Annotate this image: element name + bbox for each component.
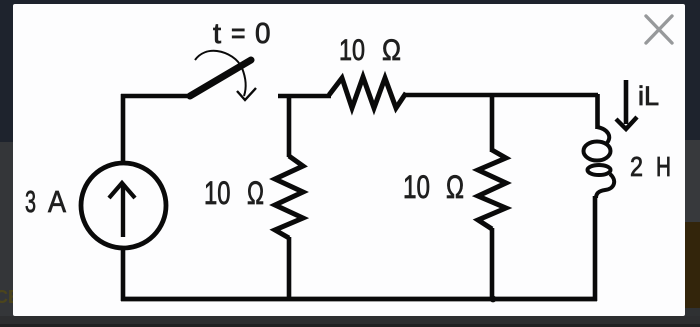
switch S1 closing motion arrowhead [237, 88, 256, 100]
node A junction: top of R2 [287, 94, 292, 157]
junction dot R3 bottom [490, 296, 497, 303]
svg-text:10: 10 [403, 169, 430, 205]
resistor R1 10 ohm horizontal zigzag [329, 77, 406, 108]
label 2 H for L1 [630, 151, 671, 182]
page background right brown ad band [684, 222, 700, 308]
page background left gray strip [0, 142, 14, 316]
svg-text:=: = [231, 18, 246, 50]
current source I1 arrowhead [109, 183, 135, 198]
wire top rail: R1 to node B and on to inductor corner [404, 93, 598, 98]
inductor L1 top hook [597, 127, 609, 144]
svg-text:H: H [656, 151, 671, 182]
wire R2 bottom stub [287, 237, 292, 299]
iL current arrowhead [616, 117, 637, 129]
label 3 A for source I1 [25, 184, 66, 219]
wire R3 bottom stub [490, 228, 495, 299]
wire right vertical: inductor to bottom rail [593, 196, 598, 301]
page background right gray strip [684, 140, 700, 222]
wire bottom rail [121, 297, 597, 302]
svg-text:Ω: Ω [446, 169, 464, 205]
svg-text:0: 0 [255, 18, 271, 50]
iL current arrow shaft [624, 80, 629, 124]
resistor R3 10 ohm vertical zigzag [478, 150, 506, 229]
svg-text:2: 2 [630, 151, 643, 182]
page background right lower gray [684, 308, 700, 316]
current source I1 arrow shaft [121, 185, 125, 237]
page background navy header region [0, 0, 700, 142]
svg-text:10: 10 [204, 175, 231, 211]
label 10 ohm for R2 [204, 175, 264, 211]
node B junction: top of R3 [490, 94, 495, 152]
inductor L1 loop 2 [588, 165, 611, 175]
inductor L1 bottom hook [596, 174, 614, 198]
wire left branch top (corner down to source) [121, 94, 126, 164]
switch S1 closing motion arc [195, 51, 246, 96]
resistor R2 10 ohm vertical zigzag [275, 156, 303, 238]
wire left branch bottom (source to bottom rail) [121, 247, 126, 301]
close button X [646, 16, 672, 43]
svg-text:iL: iL [638, 81, 659, 111]
label 10 ohm for R1 [339, 34, 401, 67]
label t = 0 (switch actuation time) [213, 18, 271, 50]
wire top-left horizontal (source to switch) [121, 94, 189, 99]
svg-text:t: t [213, 18, 221, 50]
svg-text:Ω: Ω [382, 34, 401, 67]
wire top rail: switch to node A [278, 94, 331, 99]
switch S1 blade (open, t=0) [190, 60, 251, 96]
page background bottom dark line [0, 324, 700, 327]
wire right vertical: top corner to inductor [595, 94, 600, 129]
svg-text:Ω: Ω [247, 175, 264, 211]
inductor L1 loop 1 [584, 142, 611, 161]
svg-text:A: A [48, 184, 66, 219]
svg-text:10: 10 [339, 34, 365, 67]
label 10 ohm for R3 [403, 169, 464, 205]
current source I1 circle [81, 163, 166, 248]
svg-text:3: 3 [25, 184, 36, 219]
